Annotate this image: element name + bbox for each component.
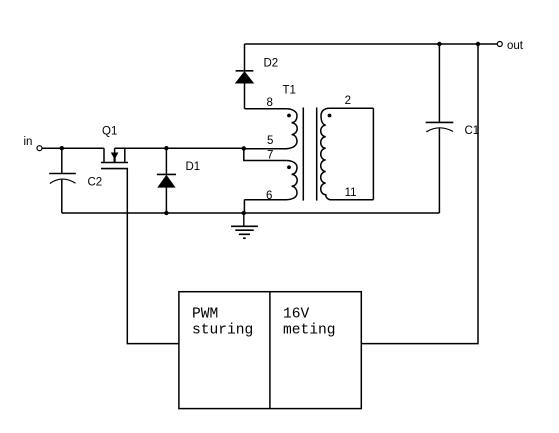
wire Q1 gate to PWM box bbox=[127, 169, 179, 344]
diode D2 bbox=[235, 44, 278, 109]
PWM control block U1 bbox=[179, 292, 361, 409]
wire top rail bbox=[245, 43, 498, 45]
primary winding 7-6 bbox=[244, 161, 297, 200]
wire right rail to 16V meting block bbox=[361, 44, 478, 344]
pin 8 lead bbox=[245, 108, 287, 110]
junction pin5 node bbox=[242, 146, 246, 150]
core line left bbox=[302, 108, 304, 201]
primary winding 8-5 bbox=[244, 109, 297, 149]
capacitor C2 bbox=[49, 148, 102, 213]
svg-text:5: 5 bbox=[267, 135, 273, 147]
svg-text:out: out bbox=[507, 40, 524, 52]
transformer T1 bbox=[242, 85, 374, 214]
junction D1 top bbox=[164, 146, 168, 150]
svg-text:D1: D1 bbox=[186, 161, 201, 173]
svg-text:6: 6 bbox=[266, 190, 272, 202]
svg-text:11: 11 bbox=[345, 187, 357, 199]
core line right bbox=[316, 108, 318, 201]
secondary winding 2-11 bbox=[321, 108, 374, 200]
svg-text:2: 2 bbox=[345, 95, 351, 107]
svg-text:in: in bbox=[24, 136, 33, 148]
svg-text:PWM: PWM bbox=[192, 306, 218, 322]
junction C2 top bbox=[60, 146, 64, 150]
wire bottom rail bbox=[62, 212, 440, 214]
svg-text:sturing: sturing bbox=[192, 323, 253, 339]
diode D1 bbox=[157, 148, 200, 213]
phase dot winding 8-5 bbox=[287, 114, 291, 118]
svg-text:C1: C1 bbox=[465, 125, 480, 137]
svg-text:D2: D2 bbox=[264, 58, 279, 70]
junction D1 bottom bbox=[164, 211, 168, 215]
svg-text:8: 8 bbox=[267, 97, 273, 109]
secondary right side wire bbox=[372, 108, 374, 200]
svg-text:meting: meting bbox=[283, 323, 336, 339]
capacitor C1 bbox=[426, 44, 480, 213]
phase dot secondary bbox=[328, 114, 332, 118]
svg-text:16V: 16V bbox=[283, 306, 310, 322]
phase dot winding 7-6 bbox=[287, 165, 291, 169]
transistor Q1 bbox=[101, 126, 128, 169]
junction right rail top bbox=[476, 42, 480, 46]
svg-text:7: 7 bbox=[267, 150, 273, 162]
node out bbox=[497, 40, 523, 52]
svg-text:T1: T1 bbox=[283, 85, 296, 97]
wire in to Q1 source bbox=[43, 147, 105, 149]
wire pin5 node down to pin 7 bbox=[244, 148, 286, 160]
wire Q1 drain to T1 pin 5 bbox=[115, 147, 244, 149]
node in bbox=[24, 136, 43, 151]
svg-text:C2: C2 bbox=[88, 176, 103, 188]
wire pin 6 down to ground rail bbox=[243, 200, 245, 213]
junction ground node bbox=[242, 211, 246, 215]
svg-text:Q1: Q1 bbox=[102, 126, 117, 138]
junction C1 top bbox=[437, 42, 441, 46]
ground bbox=[231, 213, 258, 238]
